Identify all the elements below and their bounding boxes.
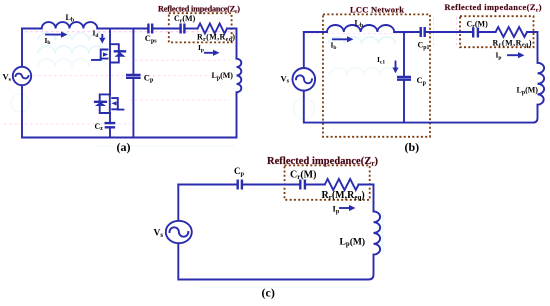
svg-text:Lp(M): Lp(M) bbox=[517, 86, 539, 96]
svg-text:(b): (b) bbox=[405, 140, 420, 154]
svg-text:Cr(M): Cr(M) bbox=[290, 169, 316, 181]
svg-text:Cr(M): Cr(M) bbox=[174, 14, 196, 24]
svg-text:(c): (c) bbox=[262, 286, 275, 300]
svg-text:(a): (a) bbox=[117, 140, 131, 154]
svg-text:Lp(M): Lp(M) bbox=[212, 71, 234, 81]
svg-text:Lp(M): Lp(M) bbox=[340, 236, 366, 248]
svg-text:Reflected impedance(Zr): Reflected impedance(Zr) bbox=[158, 4, 240, 14]
svg-text:Reflected impedance(Zr): Reflected impedance(Zr) bbox=[445, 3, 542, 13]
svg-text:Cr(M): Cr(M) bbox=[467, 19, 489, 29]
svg-text:LCC Network: LCC Network bbox=[350, 5, 404, 15]
svg-text:Reflected impedance(Zr): Reflected impedance(Zr) bbox=[267, 156, 378, 168]
